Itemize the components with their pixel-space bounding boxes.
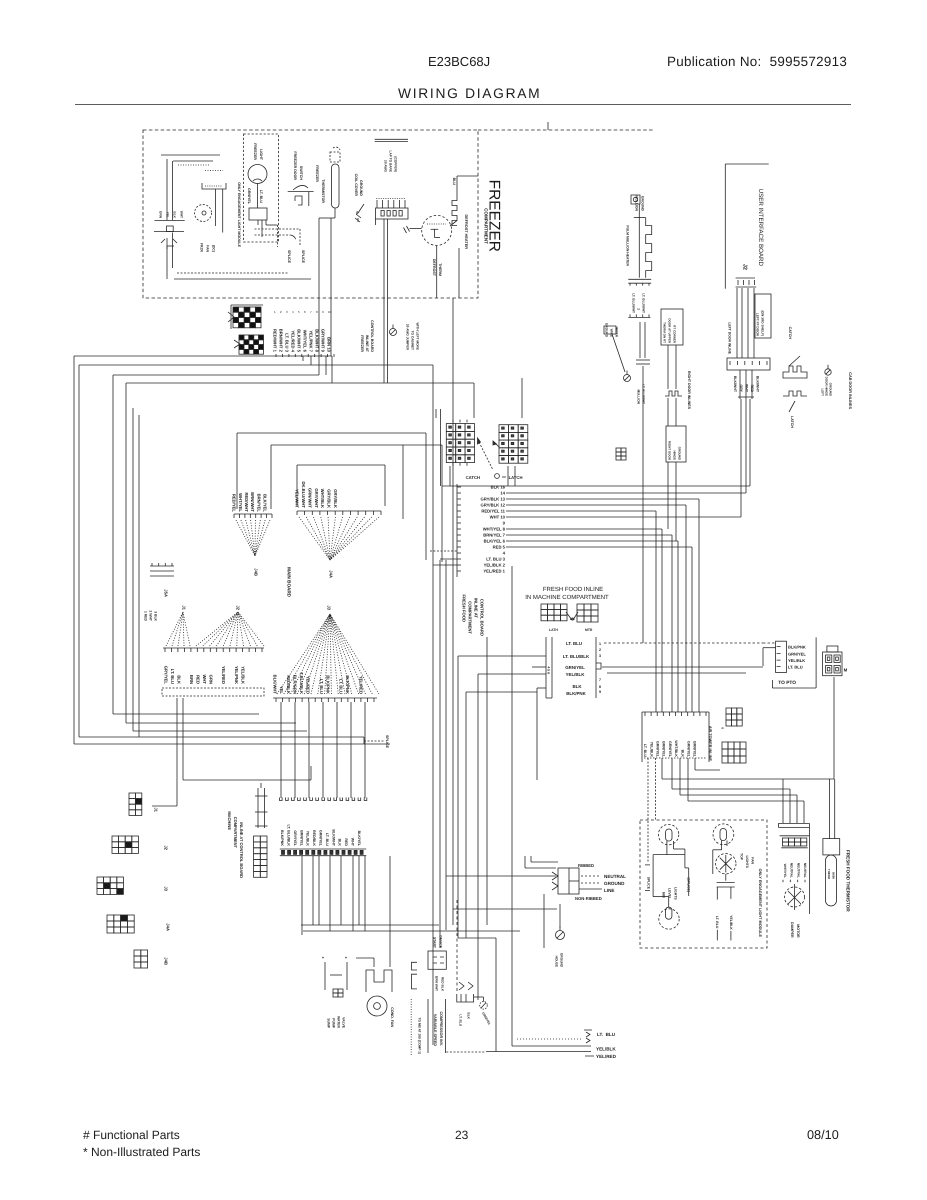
svg-text:LIGHTS: LIGHTS <box>745 855 749 868</box>
svg-text:BLK/YEL 6: BLK/YEL 6 <box>484 539 506 544</box>
svg-text:3: 3 <box>599 654 601 658</box>
compressor inline dashed <box>456 900 458 993</box>
svg-text:YEL/RED 4: YEL/RED 4 <box>291 330 296 352</box>
svg-text:COMPARTMENT: COMPARTMENT <box>483 208 488 244</box>
svg-text:LEVEL: LEVEL <box>667 888 671 899</box>
svg-text:YEL/RED: YEL/RED <box>221 666 226 684</box>
svg-text:TO CABINET: TO CABINET <box>410 331 414 350</box>
svg-text:(SPLICE): (SPLICE) <box>686 877 690 892</box>
svg-text:BLK: BLK <box>176 675 181 684</box>
svg-text:J1: J1 <box>154 807 159 812</box>
svg-text:LT. BLU: LT. BLU <box>170 669 175 684</box>
svg-text:LT. BLU: LT. BLU <box>566 641 582 646</box>
wire <box>433 564 457 566</box>
svg-text:7: 7 <box>599 678 601 682</box>
wire <box>329 856 331 931</box>
ff lamp top left <box>658 824 678 844</box>
wire <box>312 856 314 925</box>
svg-text:BLK/WHT: BLK/WHT <box>756 376 760 393</box>
wire <box>358 856 360 925</box>
wire <box>126 382 474 384</box>
mullion connector ticks <box>628 278 651 280</box>
svg-text:FREEZER: FREEZER <box>253 143 257 160</box>
svg-text:DAMPER: DAMPER <box>790 922 794 938</box>
svg-text:LATCH: LATCH <box>790 416 794 428</box>
svg-text:YEL/RED: YEL/RED <box>358 676 363 694</box>
fresh food thermistor feed wires <box>829 779 831 839</box>
svg-text:INLINE AT: INLINE AT <box>365 335 369 353</box>
house ground symbol <box>556 931 565 940</box>
svg-text:GROUND: GROUND <box>678 447 682 461</box>
wire <box>436 246 438 298</box>
svg-text:SPLICE: SPLICE <box>385 735 389 749</box>
svg-text:6: 6 <box>720 727 724 729</box>
svg-text:COMPARTMENT: COMPARTMENT <box>233 817 238 849</box>
svg-text:TO MB AT J99 (COMP 1): TO MB AT J99 (COMP 1) <box>417 1018 421 1054</box>
svg-text:CATCH: CATCH <box>466 475 480 480</box>
svg-text:ONLY ENGAGEMENT LIGHT MODULE: ONLY ENGAGEMENT LIGHT MODULE <box>237 182 241 247</box>
wire <box>303 930 520 932</box>
defrost thermostat <box>422 215 452 245</box>
svg-text:MACHINE: MACHINE <box>227 811 232 830</box>
freezer fan motor FRZR FAN (DC) <box>195 205 212 222</box>
wire <box>138 415 140 737</box>
svg-text:RED/WHT: RED/WHT <box>244 492 249 512</box>
wire <box>458 937 496 939</box>
svg-text:LT. BLU/WHT: LT. BLU/WHT <box>641 384 645 404</box>
wire <box>661 758 663 779</box>
connector grid J2 bottom <box>112 836 138 853</box>
coil cover ground symbol <box>357 204 364 214</box>
svg-text:NEUTRAL: NEUTRAL <box>803 863 807 878</box>
svg-text:BRN/YEL: BRN/YEL <box>256 494 261 513</box>
svg-text:RED: RED <box>344 838 348 846</box>
door latch upper <box>783 366 807 378</box>
svg-text:20 AWG: 20 AWG <box>383 160 387 172</box>
freezer compartment dashed enclosure <box>143 130 478 298</box>
connector grid CATCH <box>446 424 474 463</box>
svg-text:*: * <box>322 956 324 962</box>
svg-text:COMPRESSOR INV.: COMPRESSOR INV. <box>439 1012 443 1047</box>
svg-text:JMPER: JMPER <box>614 326 618 338</box>
wire <box>671 758 673 789</box>
connector J5A <box>150 566 174 576</box>
svg-text:BLK: BLK <box>466 1012 470 1019</box>
mullion capacitor <box>639 322 641 358</box>
svg-text:WHT: WHT <box>351 838 355 847</box>
svg-text:J4A: J4A <box>329 570 334 578</box>
svg-text:TO PTO: TO PTO <box>778 680 796 686</box>
svg-text:*: * <box>345 956 347 962</box>
svg-text:FAN: FAN <box>750 857 754 864</box>
svg-text:BLK/PNK: BLK/PNK <box>788 645 806 650</box>
svg-text:BLK: BLK <box>338 839 342 847</box>
svg-text:1 RED: 1 RED <box>143 611 147 622</box>
svg-text:LT. BLU: LT. BLU <box>715 916 719 929</box>
ff inline connector grid LATH <box>541 604 567 621</box>
svg-text:NEUTRAL: NEUTRAL <box>790 863 794 878</box>
plug chevrons <box>552 872 558 890</box>
wire <box>297 464 385 466</box>
svg-text:LT. BLU: LT. BLU <box>319 679 324 694</box>
svg-text:LT. BLU: LT. BLU <box>643 744 647 758</box>
svg-text:BRN/YEL 7: BRN/YEL 7 <box>483 533 505 538</box>
svg-text:GROUND: GROUND <box>604 881 625 886</box>
svg-text:COIL COVER: COIL COVER <box>354 174 358 197</box>
title underline <box>75 104 851 106</box>
freezer inline connector receptacle <box>239 335 264 354</box>
svg-text:RED/YEL: RED/YEL <box>232 494 237 513</box>
svg-text:MOTOR: MOTOR <box>796 924 800 938</box>
svg-text:BLK: BLK <box>172 211 176 218</box>
freezer light module dashed box <box>244 134 279 242</box>
svg-text:YEL/BLK: YEL/BLK <box>240 666 245 684</box>
wire <box>506 504 686 506</box>
mullion ground lug <box>631 195 640 204</box>
house ground wire <box>559 904 561 928</box>
svg-text:CATCH: CATCH <box>788 327 792 340</box>
svg-text:TOP: TOP <box>739 853 743 861</box>
svg-text:1: 1 <box>599 642 601 646</box>
svg-text:5: 5 <box>298 310 300 314</box>
svg-text:VALVE: VALVE <box>341 1017 345 1029</box>
svg-text:RED 5: RED 5 <box>493 545 506 550</box>
svg-text:BRN/YEL: BRN/YEL <box>299 830 303 847</box>
ff inline connector grid MTR <box>577 604 598 622</box>
wire <box>445 560 447 930</box>
wire <box>449 466 451 486</box>
freezer thermistor symbol <box>333 147 340 150</box>
cabinet ground symbol <box>390 329 397 336</box>
svg-text:(DC): (DC) <box>211 245 215 252</box>
label LEFT FF DOOR (ON 3RD SHELF) <box>755 294 771 338</box>
wire <box>506 498 699 500</box>
svg-text:FRESH FOOD INLINE: FRESH FOOD INLINE <box>543 586 603 593</box>
svg-text:LIGHTS: LIGHTS <box>673 887 677 900</box>
svg-text:BLK: BLK <box>572 684 582 689</box>
wire <box>525 867 556 869</box>
svg-text:INLINE AT: INLINE AT <box>474 598 479 618</box>
svg-text:BLK/PNK: BLK/PNK <box>325 675 330 694</box>
svg-text:23: 23 <box>455 1128 469 1142</box>
svg-text:DOOR HINGE: DOOR HINGE <box>825 377 829 396</box>
fan J4A <box>299 517 330 560</box>
svg-text:10: 10 <box>328 310 332 314</box>
wire <box>667 398 669 426</box>
wire <box>667 345 669 389</box>
svg-text:(COPPER): (COPPER) <box>393 156 397 172</box>
ff lamp top right <box>713 824 734 845</box>
svg-text:3 BLK: 3 BLK <box>153 611 157 621</box>
machine inline strip lower <box>280 848 366 850</box>
svg-text:WHT/YEL: WHT/YEL <box>783 864 787 878</box>
svg-text:LIGHT: LIGHT <box>259 149 263 161</box>
cond fan bracket <box>366 970 392 992</box>
svg-text:LT. BLU: LT. BLU <box>259 190 263 204</box>
PTO connector box <box>776 641 787 672</box>
label SPLICE ff1 <box>645 865 650 891</box>
svg-text:YEL/BLK: YEL/BLK <box>788 658 805 663</box>
svg-text:20 AWG JUMPER: 20 AWG JUMPER <box>405 324 409 351</box>
svg-text:DEVICE: DEVICE <box>438 935 442 948</box>
connector grid J3 bottom <box>97 877 123 894</box>
strip A dashed box <box>162 688 264 696</box>
wire <box>425 541 427 560</box>
wire <box>174 278 311 280</box>
mullion heater element <box>634 217 646 219</box>
wire <box>512 1045 591 1047</box>
freezer inline pin numbers <box>275 354 277 357</box>
svg-text:2: 2 <box>599 648 601 652</box>
air tower ticks bottom <box>644 757 706 759</box>
svg-text:J3: J3 <box>164 886 169 891</box>
svg-text:BRN/WHT 2: BRN/WHT 2 <box>279 329 284 353</box>
wire <box>679 758 681 795</box>
wire <box>79 364 433 366</box>
ticks bottom right <box>584 1030 594 1056</box>
mullion tick row 2 <box>628 316 650 318</box>
svg-text:SWITCH: SWITCH <box>299 166 303 181</box>
connector grid J4B bottom <box>134 950 148 968</box>
svg-text:GRN/WHT: GRN/WHT <box>307 488 312 508</box>
ff light module dashed box <box>640 820 767 948</box>
wire <box>654 758 656 821</box>
svg-text:GRN/YEL: GRN/YEL <box>247 188 251 205</box>
svg-text:GRY/BLK: GRY/BLK <box>327 489 332 508</box>
freezer fan connector comb <box>205 170 223 172</box>
svg-text:GROUND: GROUND <box>359 180 363 196</box>
svg-text:J4A: J4A <box>166 923 171 931</box>
svg-text:SUMP: SUMP <box>326 1018 330 1029</box>
wire <box>458 248 460 298</box>
svg-text:MTR: MTR <box>585 628 593 632</box>
svg-text:LT. BLU 3: LT. BLU 3 <box>486 557 505 562</box>
fan J4B <box>236 520 255 556</box>
wire <box>340 856 342 925</box>
svg-text:GRY/WHT 9: GRY/WHT 9 <box>321 329 326 353</box>
wire <box>782 779 784 823</box>
svg-text:LEFT FF DOOR: LEFT FF DOOR <box>755 313 759 337</box>
wire <box>607 672 746 674</box>
svg-text:GROUND: GROUND <box>604 323 608 338</box>
splice wires below light module <box>265 220 267 225</box>
wire <box>452 298 454 925</box>
svg-text:4: 4 <box>292 310 294 314</box>
svg-text:LT. BLU 3: LT. BLU 3 <box>285 333 290 352</box>
wire <box>237 432 426 434</box>
svg-text:HINGE: HINGE <box>673 450 677 460</box>
svg-text:BRN: BRN <box>189 675 194 684</box>
svg-text:MULLION: MULLION <box>636 389 640 404</box>
arrow <box>566 612 572 620</box>
svg-text:LT. BLU/BLK: LT. BLU/BLK <box>563 654 590 659</box>
svg-text:2: 2 <box>280 310 282 314</box>
svg-text:WATER: WATER <box>336 1016 340 1029</box>
svg-text:IN MACHINE COMPARTMENT: IN MACHINE COMPARTMENT <box>525 594 609 601</box>
svg-text:BLK: BLK <box>680 750 684 758</box>
compressor box outline <box>410 999 412 1055</box>
wire <box>352 856 354 931</box>
freezer inline connector plug <box>231 305 263 329</box>
wire <box>506 540 678 542</box>
wire <box>602 666 763 668</box>
freezer door switch symbol <box>288 191 314 193</box>
sump pump water valve <box>325 962 347 990</box>
svg-text:RED BLK: RED BLK <box>440 977 444 992</box>
wire <box>439 560 441 948</box>
compressor ground <box>480 1002 488 1010</box>
svg-text:MULLION: MULLION <box>634 196 638 212</box>
left door hinge ground <box>825 369 831 375</box>
svg-text:BLK 16: BLK 16 <box>491 485 506 490</box>
svg-text:FRESH FOOD: FRESH FOOD <box>462 595 467 622</box>
air tower connector grid upper <box>726 708 742 726</box>
svg-text:COMPARTMENT: COMPARTMENT <box>468 601 473 634</box>
connector grid J4A bottom <box>107 915 134 933</box>
cond fan motor <box>367 996 387 1016</box>
svg-text:NEUTRAL: NEUTRAL <box>796 863 800 878</box>
svg-text:THERM: THERM <box>438 263 442 276</box>
svg-text:WHT: WHT <box>744 384 748 393</box>
connector strip J4B <box>233 514 235 518</box>
ff lamp mid right <box>716 854 736 874</box>
svg-text:GRN/YEL: GRN/YEL <box>668 741 672 758</box>
svg-text:BLK/GRN: BLK/GRN <box>292 675 297 694</box>
svg-text:THERMISTOR: THERMISTOR <box>321 179 325 203</box>
svg-text:GRY/BLK 12: GRY/BLK 12 <box>480 503 505 508</box>
latch arrow <box>478 438 481 444</box>
svg-text:BLK/PNK: BLK/PNK <box>280 830 284 846</box>
wire to pins left <box>458 655 546 657</box>
wire <box>166 159 168 220</box>
svg-text:J5A: J5A <box>164 589 169 597</box>
coil cover connector comb <box>376 198 405 200</box>
air tower connector grid lower <box>722 742 746 763</box>
ff inline bracket right <box>595 637 597 698</box>
svg-text:08/10: 08/10 <box>807 1128 839 1142</box>
svg-text:LT. BLU/WHT: LT. BLU/WHT <box>641 293 645 313</box>
svg-text:GRY: GRY <box>739 385 743 393</box>
wire line out <box>579 888 602 890</box>
user interface board bracket <box>724 164 726 289</box>
compressor chevrons <box>459 982 473 990</box>
svg-text:WHT/YEL 6: WHT/YEL 6 <box>303 330 308 353</box>
svg-text:50/60: 50/60 <box>831 872 835 879</box>
svg-text:RIBBED: RIBBED <box>578 863 594 868</box>
svg-text:GRN: GRN <box>158 211 162 219</box>
wire <box>486 637 488 925</box>
defrost ground <box>404 226 410 233</box>
svg-text:4 5 6: 4 5 6 <box>546 666 550 674</box>
svg-text:LT. BLU/BLK: LT. BLU/BLK <box>287 825 291 847</box>
ff lamp bottom left <box>659 909 679 929</box>
svg-text:9: 9 <box>599 690 601 694</box>
door hinge ground <box>624 375 631 382</box>
wire <box>161 154 220 156</box>
svg-text:FAN: FAN <box>205 245 209 252</box>
svg-text:BLK/WHT 5: BLK/WHT 5 <box>297 329 302 352</box>
svg-text:FREEZER: FREEZER <box>315 165 319 182</box>
ff capacitor <box>712 860 714 874</box>
svg-text:YEL/BLK: YEL/BLK <box>306 831 310 847</box>
fresh food control board connector bracket <box>456 484 458 577</box>
svg-text:BRN/YEL: BRN/YEL <box>662 741 666 758</box>
wire <box>543 894 545 948</box>
svg-text:LT. BLU: LT. BLU <box>788 665 803 670</box>
damper ticks <box>782 880 784 883</box>
svg-text:GRN/YEL: GRN/YEL <box>687 741 691 758</box>
svg-text:INLINE AT CONTROL BOARD: INLINE AT CONTROL BOARD <box>239 822 244 878</box>
svg-text:RIGHT DOOR INLINES: RIGHT DOOR INLINES <box>687 371 691 410</box>
connector strip J4A <box>296 511 298 515</box>
wire dashed to PTO <box>604 642 763 644</box>
svg-text:DEFROST HEATER: DEFROST HEATER <box>464 214 468 249</box>
svg-text:SPLICE: SPLICE <box>301 250 305 264</box>
right door hinge box <box>666 426 686 462</box>
connector grid J1 bottom <box>129 793 142 815</box>
fresh food thermistor body <box>826 855 837 906</box>
svg-text:YEL/RED 1: YEL/RED 1 <box>483 569 505 574</box>
freezer fan run capacitor <box>155 220 185 222</box>
svg-text:GRN/YEL: GRN/YEL <box>656 741 660 758</box>
svg-text:YEL/BLK: YEL/BLK <box>649 742 653 758</box>
svg-text:SPLICE: SPLICE <box>287 250 291 264</box>
svg-text:GRY/YEL: GRY/YEL <box>293 830 297 846</box>
svg-text:BRN/WHT: BRN/WHT <box>250 492 255 512</box>
svg-text:YEL/BLK 2: YEL/BLK 2 <box>484 563 506 568</box>
svg-text:BLK/WHT: BLK/WHT <box>331 829 335 846</box>
svg-text:YEL/RED: YEL/RED <box>596 1054 617 1059</box>
svg-text:BLK/WHT: BLK/WHT <box>273 675 278 695</box>
wire <box>364 856 366 931</box>
svg-text:VARIABLE SPEED: VARIABLE SPEED <box>433 1014 437 1046</box>
damper right edge wire <box>808 827 810 914</box>
svg-text:HOUSE: HOUSE <box>554 956 558 967</box>
wire <box>753 288 755 358</box>
svg-text:J3: J3 <box>327 605 332 610</box>
wire <box>74 355 332 357</box>
svg-text:GRN: GRN <box>208 675 213 684</box>
svg-text:14: 14 <box>500 491 505 496</box>
svg-text:USER INTERFACE BOARD: USER INTERFACE BOARD <box>757 189 764 267</box>
wire <box>506 546 692 548</box>
ff lamp bus <box>653 854 685 856</box>
svg-text:NEUTRAL: NEUTRAL <box>604 874 626 879</box>
svg-text:GRN/YEL: GRN/YEL <box>319 830 323 847</box>
svg-text:YEL/WHT: YEL/WHT <box>295 489 300 508</box>
wire <box>506 528 662 530</box>
air tower inline strip <box>642 711 709 713</box>
wire <box>446 875 556 877</box>
damper connector grid <box>780 835 810 837</box>
svg-text:NON-RIBBED: NON-RIBBED <box>575 896 602 901</box>
wire <box>442 485 750 487</box>
svg-text:WHT: WHT <box>179 211 183 218</box>
wire <box>531 861 558 863</box>
svg-text:CAB DOOR INLINES: CAB DOOR INLINES <box>848 372 852 409</box>
svg-text:CONTROL BOARD: CONTROL BOARD <box>370 320 374 352</box>
svg-text:RIGHT DOOR: RIGHT DOOR <box>668 441 672 461</box>
plug dashes <box>581 875 601 877</box>
svg-text:4: 4 <box>503 551 506 556</box>
svg-text:LT. BLU: LT. BLU <box>597 1032 616 1037</box>
svg-text:DOOR AT UPPER: DOOR AT UPPER <box>668 318 672 344</box>
door latch lower <box>783 391 807 396</box>
svg-text:8: 8 <box>316 310 318 314</box>
svg-text:* Non-Illustrated Parts: * Non-Illustrated Parts <box>83 1145 200 1159</box>
wire <box>318 856 320 925</box>
wire <box>741 288 743 358</box>
